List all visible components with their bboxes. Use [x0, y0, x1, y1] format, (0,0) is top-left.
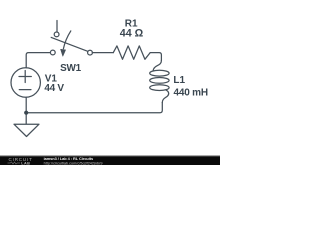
inductor L1 exit curl	[162, 90, 168, 103]
svg-text:http://circuitlab.com/c/5q3f24: http://circuitlab.com/c/5q3f242jnbr9	[44, 161, 103, 165]
wire stub above switch top throw	[56, 21, 58, 32]
switch SW1 actuation arrow	[63, 31, 70, 49]
resistor R1 zigzag	[113, 46, 150, 59]
svg-text:LAB: LAB	[21, 161, 30, 165]
svg-text:440 mH: 440 mH	[174, 88, 208, 99]
junction node dot	[24, 111, 28, 115]
wire from V1 bottom to ground node	[25, 97, 27, 113]
wire from resistor R1 to inductor L1	[150, 53, 161, 61]
svg-text:44 V: 44 V	[44, 83, 64, 94]
switch SW1 lever	[51, 37, 87, 51]
svg-text:SW1: SW1	[60, 63, 82, 74]
voltage source V1 circle	[11, 68, 40, 97]
inductor L1 entry curve	[153, 61, 161, 71]
bottom rail wire from node to inductor L1	[26, 103, 162, 113]
V1 minus sign	[19, 89, 31, 91]
CircuitLab logo resistor glyph and LAB	[8, 162, 21, 164]
V1 plus sign	[19, 71, 31, 83]
svg-text:L1: L1	[173, 75, 185, 86]
switch SW1 left throw terminal	[50, 50, 55, 55]
svg-text:44 Ω: 44 Ω	[120, 28, 144, 40]
wire from switch common to resistor R1	[92, 52, 113, 54]
switch SW1 top throw terminal	[54, 32, 59, 37]
inductor L1 coil loops	[150, 70, 169, 76]
wire from switch left terminal to voltage source V1	[26, 53, 50, 68]
switch SW1 right common terminal	[88, 50, 93, 55]
ground symbol	[14, 113, 39, 137]
